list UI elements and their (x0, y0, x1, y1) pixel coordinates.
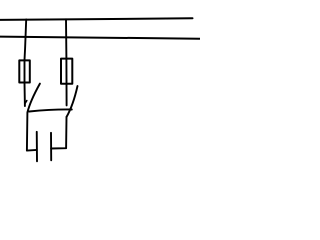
wire: S2 lower lead to contact bar B (51, 117, 66, 149)
mechanical linkage bar between S1 and S2 (29, 109, 72, 111)
fuse F1 (cartridge fuse body) (19, 60, 30, 82)
wire: drop from L1 through fuse F1 (25, 20, 27, 83)
contact bar B (right terminal) (50, 133, 52, 161)
wire: S1 lower lead to contact bar A (27, 113, 37, 151)
bus wire L1 (top supply line) (0, 18, 193, 20)
fuse F2 (cartridge fuse body) (61, 59, 72, 84)
wire: drop from L1 through fuse F2 (65, 19, 68, 105)
switch S2 blade (right pole) (67, 86, 78, 117)
wire: fuse F1 lower lead with pen flick (25, 83, 27, 107)
switch S1 blade (left pole) (27, 84, 40, 113)
contact bar A (left terminal) (36, 132, 38, 162)
bus wire L2 (second supply line) (0, 37, 200, 39)
